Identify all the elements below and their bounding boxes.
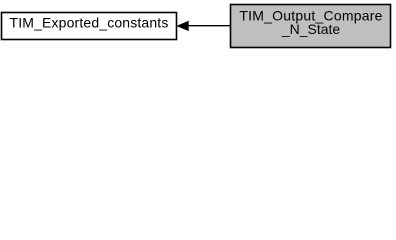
svg-text:_N_State: _N_State — [281, 21, 341, 37]
svg-text:TIM_Exported_constants: TIM_Exported_constants — [10, 15, 169, 31]
node TIM_Exported_constants box — [2, 13, 177, 40]
arrowhead pointing to TIM_Exported_constants — [178, 22, 189, 31]
node TIM_Output_Compare_N_State box — [231, 5, 391, 48]
background — [0, 0, 396, 52]
wire edge line — [188, 25, 231, 27]
